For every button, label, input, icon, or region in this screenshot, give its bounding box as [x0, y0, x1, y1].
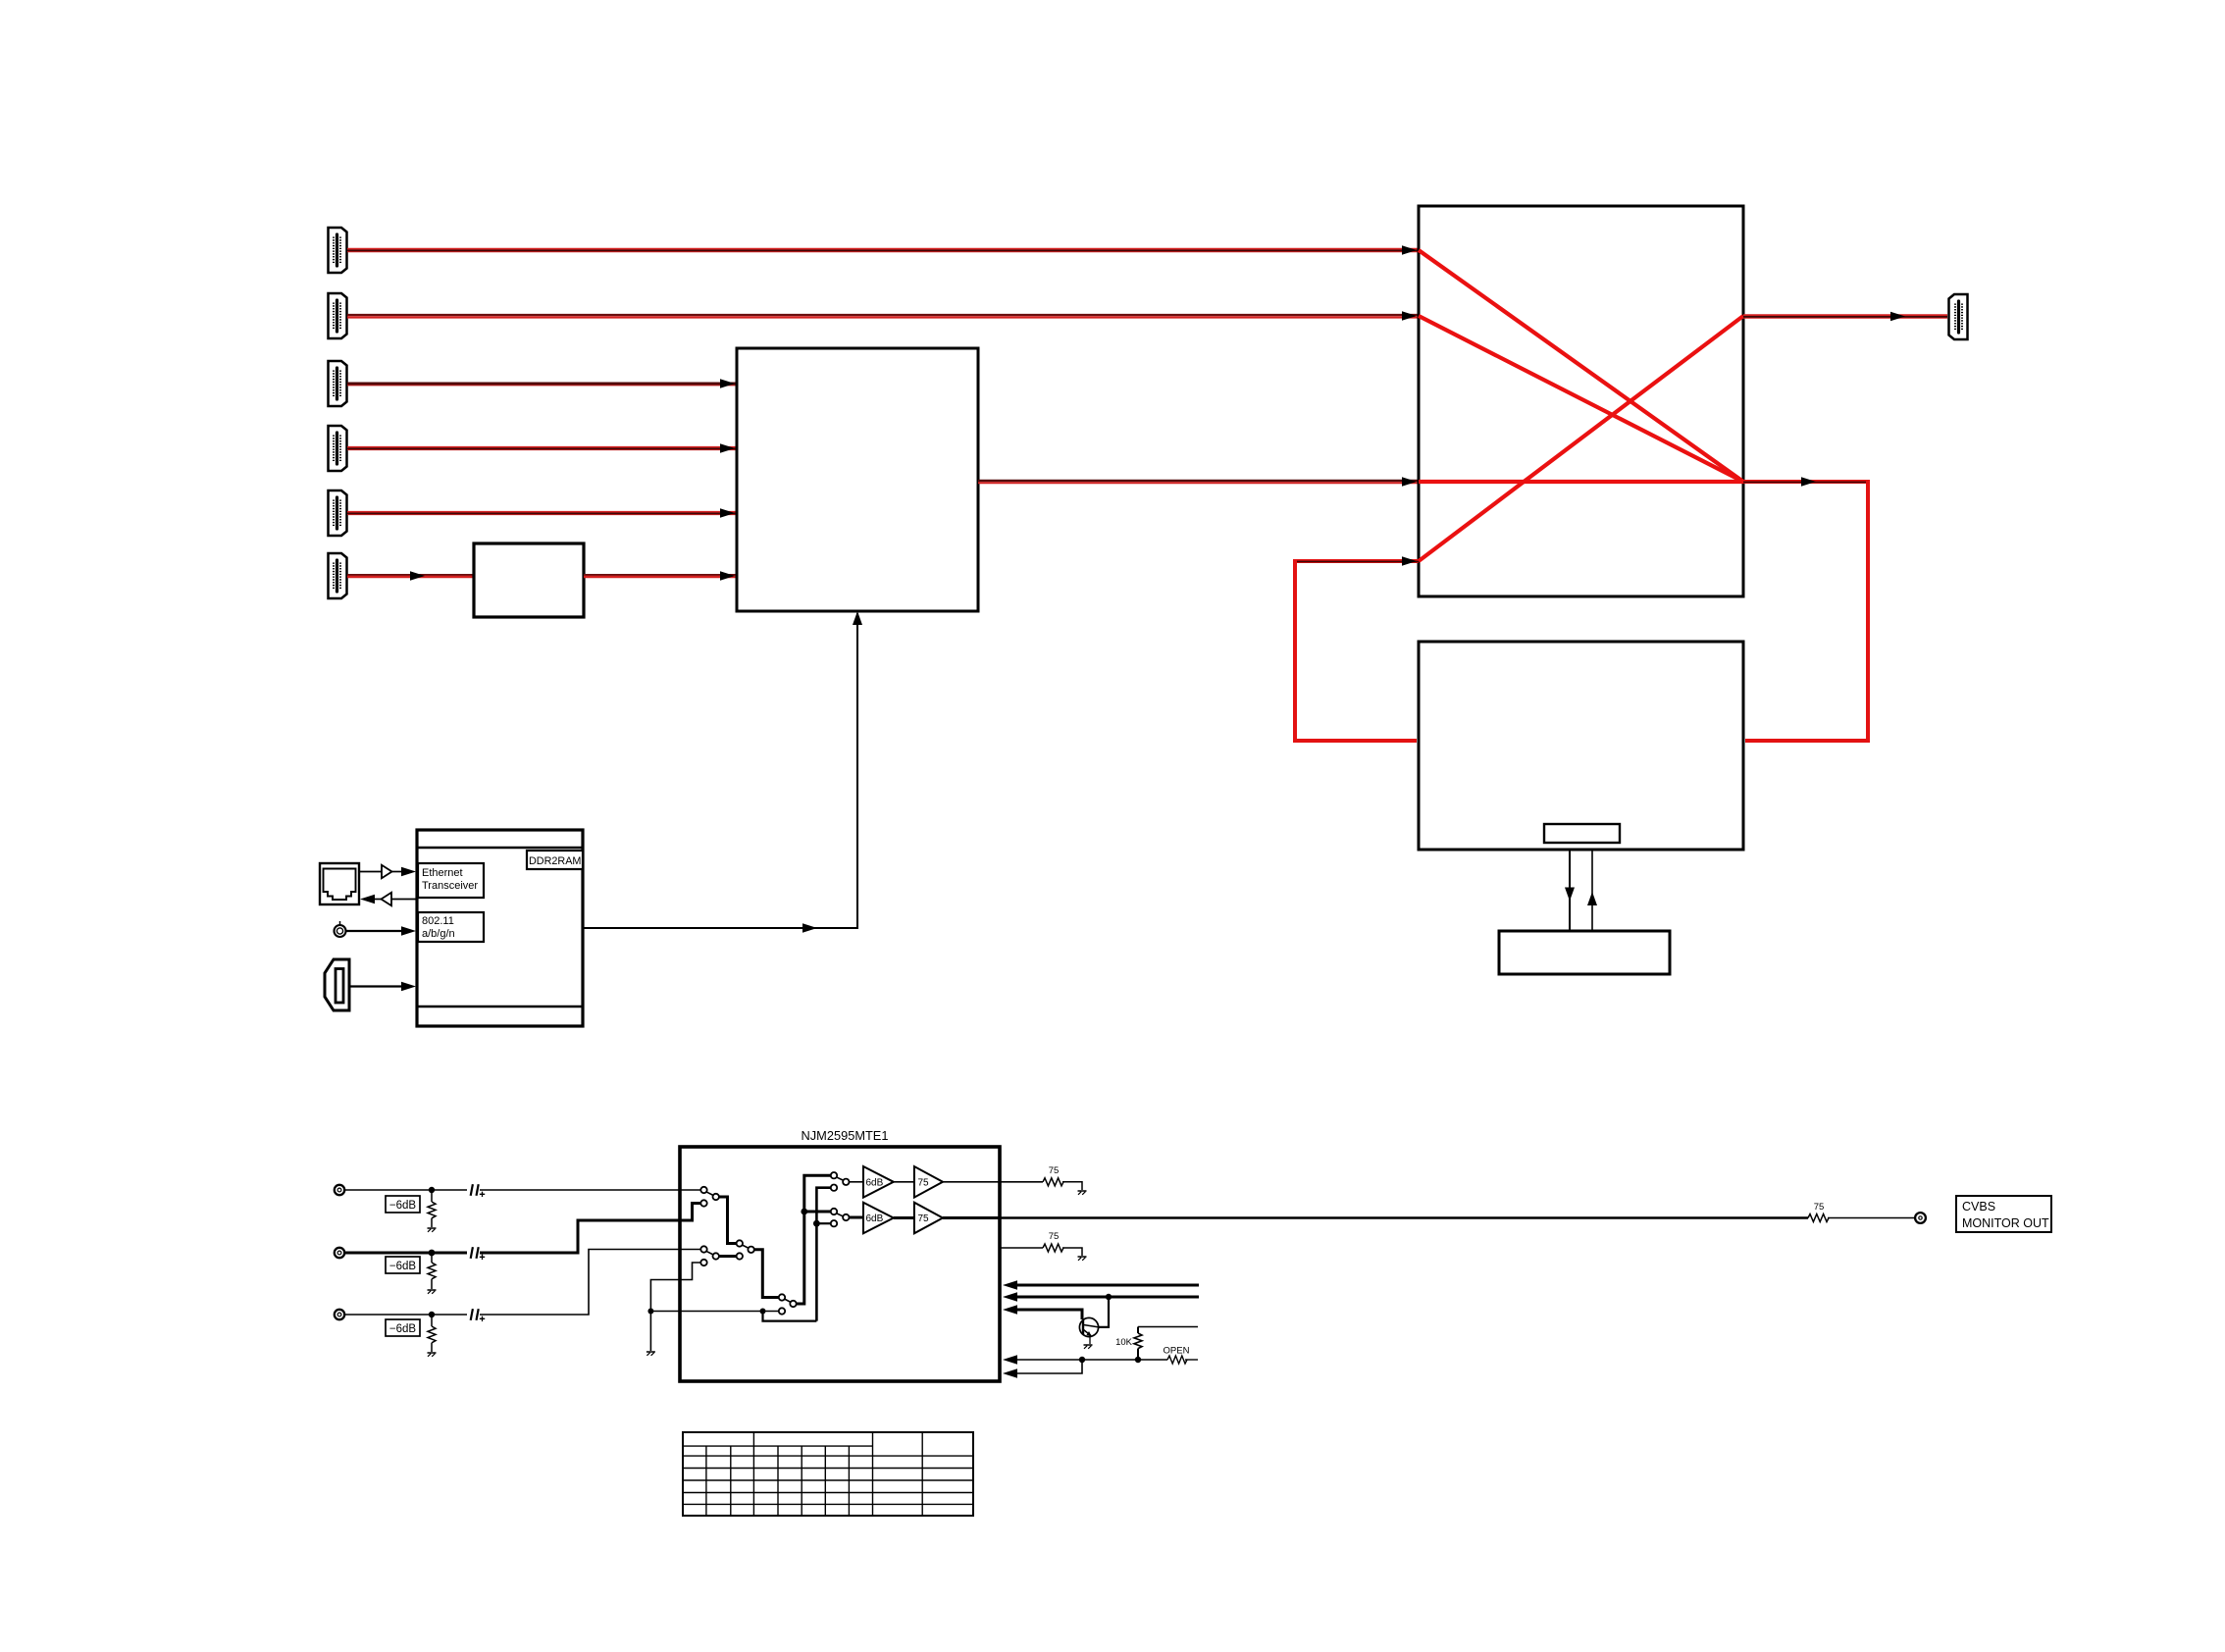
wire SW-B1 common to SW-B2 throw	[719, 1255, 737, 1258]
antenna connector	[335, 921, 346, 937]
svg-text:−6dB: −6dB	[389, 1323, 417, 1335]
capacitor C3	[471, 1309, 485, 1321]
wire control input C (to transistor base)	[1003, 1305, 1082, 1319]
wire crossbar path 4	[1419, 316, 1743, 561]
svg-text:Transceiver: Transceiver	[422, 880, 478, 892]
wire net HDMI2 to switcher	[347, 311, 1419, 321]
resistor termination R1	[428, 1190, 436, 1227]
svg-text:6dB: 6dB	[866, 1213, 884, 1224]
resistor 75 output 1	[1043, 1165, 1082, 1190]
ground Q1 emitter	[1084, 1345, 1093, 1349]
wire second bus to SW-E alt throw	[816, 1222, 830, 1224]
wire scaler U5 feedback to switcher U4	[1295, 556, 1419, 741]
svg-text:10K: 10K	[1115, 1337, 1133, 1348]
svg-text:Ethernet: Ethernet	[422, 867, 463, 879]
ground R1	[428, 1228, 437, 1232]
connector CVBS input 1	[335, 1185, 344, 1195]
wire switcher output to HDMI out connector	[1743, 312, 1947, 322]
connector J8 (RJ45 jack)	[320, 863, 359, 904]
connector CVBS input 3	[335, 1310, 344, 1319]
wire crossbar path 1	[1419, 250, 1743, 482]
connector J6 (HDMI input 6)	[329, 553, 347, 598]
wire crossbar path 3	[1419, 480, 1743, 484]
wire branch down to vertical bus	[763, 1312, 817, 1321]
wire SW-D to amp A1	[850, 1181, 864, 1183]
svg-text:75: 75	[1049, 1231, 1060, 1242]
wire ground net to SW-C alt throw	[650, 1311, 778, 1313]
wire C3 to U1 pin (steps up)	[480, 1250, 700, 1316]
connector CVBS input 2	[335, 1248, 344, 1258]
ground output 1	[1078, 1191, 1087, 1195]
node input1 junction	[429, 1187, 435, 1193]
svg-text:−6dB: −6dB	[389, 1200, 417, 1212]
capacitor C2	[471, 1247, 485, 1260]
svg-text:MONITOR OUT: MONITOR OUT	[1962, 1216, 2049, 1230]
wire control input B	[1003, 1292, 1199, 1302]
svg-text:−6dB: −6dB	[389, 1261, 417, 1272]
wire SW-E to amp A3	[850, 1216, 864, 1219]
switch SW-B2	[737, 1240, 754, 1259]
capacitor C1	[471, 1184, 485, 1197]
wire net HDMI5 to receiver U2	[347, 508, 737, 518]
wire control input D (OPEN net)	[1003, 1355, 1167, 1365]
svg-text:75: 75	[918, 1213, 930, 1224]
ground R2	[428, 1290, 437, 1294]
label -6dB box 2	[386, 1257, 420, 1273]
table (switch truth table)	[683, 1432, 973, 1516]
svg-text:802.11: 802.11	[422, 915, 454, 927]
wire net HDMI3 to receiver U2	[347, 379, 737, 388]
wire flash to scaler (up)	[1587, 850, 1597, 931]
connector J7 (HDMI output)	[1949, 294, 1968, 339]
resistor 10K pullup	[1115, 1327, 1142, 1361]
wire SW-C common up bus to SW-D	[797, 1175, 831, 1304]
wire control input E	[1003, 1360, 1082, 1378]
wire processor U6 to receiver U2 control	[583, 611, 862, 933]
wire SW-A common to SW-B2	[719, 1197, 736, 1244]
wire net HDMI6 to equalizer U3	[347, 571, 474, 581]
ground output 3	[1078, 1257, 1087, 1261]
amplifier A4 75	[914, 1203, 943, 1234]
flash memory block	[1499, 931, 1670, 974]
connector J3 (HDMI input 3)	[329, 361, 347, 406]
node input3 junction	[429, 1312, 435, 1317]
wire SW-B1 alt throw to external ground net	[650, 1263, 700, 1351]
wire net HDMI1 to switcher	[347, 245, 1419, 255]
label -6dB box 1	[386, 1196, 420, 1213]
wire SW-B2 common to SW-C	[754, 1250, 779, 1298]
connector J4 (HDMI input 4)	[329, 426, 347, 471]
svg-text:DDR2RAM: DDR2RAM	[529, 855, 581, 867]
buffer TX	[359, 865, 416, 878]
wire output 3 to termination	[1000, 1247, 1043, 1249]
HDMI receiver block U2	[737, 348, 978, 611]
DDR2RAM sub-block	[527, 851, 583, 869]
scaler block U5	[1419, 642, 1743, 850]
wire input2	[344, 1252, 467, 1255]
resistor 75 output 3	[1043, 1231, 1082, 1256]
switch SW-D	[831, 1172, 850, 1191]
switch SW-B1	[700, 1246, 719, 1265]
resistor termination R2	[428, 1253, 436, 1289]
wire A3 to A4	[894, 1216, 914, 1219]
wire Q1 collector up to control B	[1098, 1297, 1109, 1327]
wire A4 output (CVBS monitor line)	[943, 1216, 1808, 1219]
node collector junction	[1106, 1294, 1112, 1300]
svg-text:CVBS: CVBS	[1962, 1200, 1995, 1213]
wire U3 to receiver U2	[584, 571, 737, 581]
network processor block U6	[417, 830, 583, 1026]
node D-10K junction	[1135, 1357, 1141, 1363]
wire A2 output to termination	[943, 1181, 1043, 1183]
wire bus to SW-E throw	[804, 1211, 831, 1213]
amplifier A2 75	[914, 1166, 943, 1198]
amplifier A1 6dB	[863, 1166, 894, 1198]
svg-text:a/b/g/n: a/b/g/n	[422, 928, 455, 940]
label CVBS MONITOR OUT	[1956, 1196, 2051, 1232]
ground external	[647, 1352, 655, 1356]
wire antenna to 802.11	[346, 926, 417, 936]
buffer RX	[360, 893, 418, 905]
wire crossbar path 2	[1419, 316, 1743, 482]
802.11 a/b/g/n sub-block	[418, 912, 484, 942]
switch SW-E	[831, 1209, 850, 1227]
switch SW-C	[779, 1294, 797, 1314]
equalizer block U3	[474, 543, 584, 617]
wire second bus	[816, 1188, 830, 1321]
wire 10K top stub	[1138, 1326, 1198, 1328]
node bus to SW-E	[801, 1209, 807, 1215]
switch SW-A	[700, 1187, 719, 1207]
resistor termination R3	[428, 1315, 436, 1352]
wire C1 to U1 pin	[480, 1189, 700, 1191]
wire input3	[344, 1314, 467, 1316]
wire U2 output to switcher U4	[978, 477, 1419, 487]
svg-text:6dB: 6dB	[866, 1178, 884, 1189]
svg-text:75: 75	[1814, 1202, 1825, 1213]
ground R3	[428, 1353, 437, 1357]
transistor Q1	[1079, 1317, 1098, 1344]
memory sub-block inside scaler	[1544, 824, 1620, 843]
wire control input A	[1003, 1280, 1199, 1290]
resistor 75 series CVBS	[1808, 1202, 1914, 1222]
Ethernet Transceiver sub-block	[418, 863, 484, 898]
connector J2 (HDMI input 2)	[329, 293, 347, 338]
wire input1	[344, 1189, 467, 1191]
wire J9 to processor	[351, 982, 417, 992]
svg-text:OPEN: OPEN	[1164, 1346, 1190, 1357]
connector J9 (HDMI service port)	[325, 959, 349, 1010]
wire net HDMI4 to receiver U2	[347, 443, 737, 453]
node second bus to SW-E alt	[813, 1220, 820, 1227]
resistor OPEN	[1164, 1346, 1198, 1365]
node input2 junction	[429, 1250, 436, 1257]
node ground net junction	[647, 1309, 653, 1315]
video switch IC U1 body	[680, 1147, 1000, 1381]
wire C2 to U1 pin (steps up)	[480, 1204, 700, 1254]
node D-E junction	[1079, 1357, 1085, 1363]
svg-text:NJM2595MTE1: NJM2595MTE1	[802, 1128, 889, 1143]
amplifier A3 6dB	[863, 1203, 894, 1234]
node branch to bus	[760, 1309, 766, 1315]
wire A1 to A2	[894, 1181, 914, 1183]
svg-text:75: 75	[1049, 1165, 1060, 1176]
wire switcher output 2 to scaler U5	[1743, 477, 1868, 741]
svg-text:75: 75	[918, 1178, 930, 1189]
wire scaler to flash (down)	[1565, 850, 1575, 931]
connector CVBS monitor out	[1915, 1213, 1926, 1223]
connector J1 (HDMI input 1)	[329, 228, 347, 273]
connector J5 (HDMI input 5)	[329, 490, 347, 536]
HDMI switcher block U4	[1419, 206, 1743, 596]
label -6dB box 3	[386, 1319, 420, 1336]
